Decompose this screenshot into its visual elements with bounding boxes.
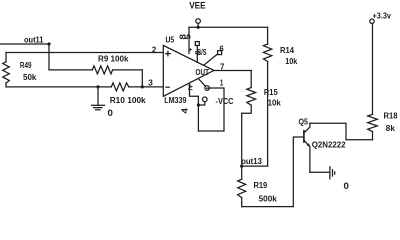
svg-text:1: 1 (220, 77, 224, 87)
svg-text:0: 0 (108, 108, 113, 118)
svg-text:R10 100k: R10 100k (110, 95, 146, 105)
wire pin3 row (6, 86, 111, 88)
value label R14 (280, 45, 294, 55)
transistor Q5 label (299, 117, 309, 127)
value label 500k (259, 194, 277, 204)
svg-text:500k: 500k (259, 194, 277, 204)
junction out11 dot (47, 42, 50, 45)
value label 10k (R15) (268, 98, 281, 108)
pin 8 stub (188, 27, 190, 53)
resistor R18 (368, 114, 378, 139)
wire collector to R18 (310, 123, 373, 140)
transistor Q5 (304, 123, 311, 172)
junction dot R9/R10 (141, 85, 144, 88)
ground 0 label (right) (344, 181, 349, 191)
value label R49 (20, 60, 32, 70)
wire pin 4 circle hook (198, 102, 204, 105)
svg-text:6: 6 (220, 43, 224, 53)
pin number 8 rotated (179, 33, 188, 39)
power +3.3v label (373, 10, 392, 20)
svg-text:R15: R15 (264, 87, 278, 97)
junction dot pin4 (197, 103, 200, 106)
transistor Q2N2222 label (312, 140, 346, 150)
wire VEE lead (197, 23, 199, 27)
resistor R15 (242, 71, 256, 167)
resistor R10 (111, 83, 163, 91)
wire pin2 row (6, 52, 163, 54)
plus input marker (166, 51, 170, 55)
wire pin 1 (198, 88, 224, 131)
pin 6 stub diagonal (204, 54, 218, 65)
pin 5 square (195, 42, 199, 46)
wire out11 horizontal (0, 43, 49, 45)
resistor R49 (3, 53, 10, 87)
svg-text:OUT: OUT (196, 67, 210, 77)
value label R9 100k (98, 54, 129, 64)
value label R10 100k (110, 95, 146, 105)
pin number 4 rotated (180, 107, 189, 113)
svg-text:LM339: LM339 (164, 95, 186, 105)
wire VEE rail (189, 26, 268, 28)
pin number 2 (152, 44, 157, 54)
value label 10k (R14) (285, 56, 297, 66)
op-amp U5 label (166, 35, 175, 45)
junction dot out13 (240, 165, 243, 168)
resistor R14 (263, 27, 271, 166)
svg-text:7: 7 (220, 62, 225, 72)
junction dot VEE (197, 26, 200, 29)
pin 4 circle (203, 97, 208, 102)
wire out13 to R14 (242, 165, 268, 167)
wire pin 4 down (197, 96, 199, 131)
svg-text:R9 100k: R9 100k (98, 54, 129, 64)
pin 4 polarity mark (189, 85, 192, 89)
pin 4 stub (190, 83, 199, 96)
svg-text:8k: 8k (386, 123, 395, 133)
svg-text:5: 5 (184, 33, 193, 39)
power VEE label (189, 1, 206, 11)
wire emitter to ground (310, 171, 329, 173)
B/S label (197, 47, 207, 57)
svg-text:Q2N2222: Q2N2222 (312, 140, 346, 150)
svg-text:+: + (189, 47, 195, 52)
pin number 1 (220, 77, 224, 87)
OUT label (196, 67, 210, 77)
wire out11 down to R9 (48, 44, 50, 70)
junction dot ground tap (96, 85, 99, 88)
svg-text:10k: 10k (285, 56, 297, 66)
svg-text:+3.3v: +3.3v (373, 10, 392, 20)
pin 5 stub (196, 46, 198, 63)
value label 8k (386, 123, 395, 133)
value label R15 (264, 87, 278, 97)
svg-text:4: 4 (180, 107, 189, 113)
pin marker B (195, 50, 201, 55)
resistor R19 (238, 166, 246, 207)
svg-text:3: 3 (148, 77, 153, 87)
svg-text:R18: R18 (384, 111, 398, 121)
wire R19 to base (242, 137, 304, 207)
svg-text:out13: out13 (241, 156, 262, 166)
ground 0 (left) (92, 87, 105, 110)
svg-text:2: 2 (152, 44, 157, 54)
wire R9 to pin3 row (141, 70, 143, 87)
svg-text:10k: 10k (268, 98, 281, 108)
ground 0 (right, rotated) (330, 167, 335, 179)
value label R19 (254, 180, 268, 190)
pin number 6 (220, 43, 224, 53)
svg-text:50k: 50k (23, 72, 37, 82)
node out13 label (241, 156, 262, 166)
node out11 label (24, 35, 44, 45)
pin 1 stub diagonal (199, 79, 206, 86)
pin 6 square (218, 51, 222, 55)
value label 50k (23, 72, 37, 82)
op-amp U5 triangle (163, 45, 214, 96)
ground 0 label (108, 108, 113, 118)
op-amp LM339 label (164, 95, 186, 105)
power +3.3v circle (370, 19, 374, 23)
pin marker +v (189, 47, 195, 52)
svg-text:0: 0 (344, 181, 349, 191)
minus input marker (166, 86, 169, 88)
pin 1 circle G (205, 86, 210, 91)
value label R18 (384, 111, 398, 121)
svg-text:R14: R14 (280, 45, 294, 55)
svg-text:-VCC: -VCC (216, 96, 234, 106)
svg-text:R19: R19 (254, 180, 268, 190)
pin number 3 (148, 77, 153, 87)
svg-text:Q5: Q5 (299, 117, 309, 127)
-VCC label (216, 96, 234, 106)
wire pin 7 output (214, 70, 251, 72)
svg-text:U5: U5 (166, 35, 175, 45)
svg-text:VEE: VEE (189, 1, 206, 11)
resistor R9 (49, 66, 142, 74)
pin number 5 rotated (184, 33, 193, 39)
wire +3.3v down (372, 23, 374, 114)
svg-text:R49: R49 (20, 60, 32, 70)
pin number 7 (220, 62, 225, 72)
power VEE circle (196, 19, 201, 24)
svg-text:out11: out11 (24, 35, 44, 45)
